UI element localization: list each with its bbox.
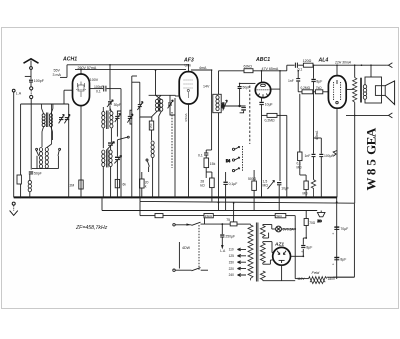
svg-text:3 mA: 3 mA [53,73,62,77]
svg-text:1nF: 1nF [288,79,294,83]
oscillator coil 2 [151,141,154,158]
wire bus end down x336.7 [336,197,338,279]
wire W2 drop [149,70,176,95]
svg-text:kΩ: kΩ [200,184,205,188]
svg-text:D4: D4 [226,159,230,163]
wire earth vertical [13,92,15,197]
svg-text:50pF: 50pF [243,86,251,90]
wire x117.4 lower [116,140,118,157]
output transformer winding [363,85,366,100]
svg-text:10µF: 10µF [265,102,273,106]
rail to speaker [313,64,387,66]
svg-text:ABC1: ABC1 [255,57,270,63]
svg-text:1MΩ: 1MΩ [221,103,225,109]
wire AZ1 bottom heater [263,265,295,281]
resistor 5k PSU [275,214,295,219]
field coil Feld [297,270,354,283]
svg-text:L.A: L.A [16,92,22,96]
wire to osc coil 2 [151,130,153,141]
capacitor 0,1 coupling [295,63,302,72]
svg-text:4DW: 4DW [182,246,191,250]
svg-text:A: A [364,127,379,137]
ground symbol [10,211,18,216]
svg-text:+: + [332,262,334,266]
svg-text:AL4: AL4 [318,58,329,64]
oscillator padder coil [28,180,31,191]
svg-text:ZF=458,7kHz: ZF=458,7kHz [75,225,108,231]
grid leak combo [240,108,246,113]
tube ACH1 [73,74,90,106]
speaker housing [365,77,382,103]
svg-text:AZ1: AZ1 [274,241,284,247]
resistor 6k on x117.4 [115,179,126,187]
ground dashes [13,205,15,210]
svg-text:8µF: 8µF [306,246,312,250]
AVC dashed line [249,86,251,145]
rail W2 y69.6 [75,69,186,71]
capacitor 1nF grid AL4 [288,71,300,92]
capacitor 0,1uF AF [223,172,237,211]
secondary winding HT [260,243,265,263]
svg-text:+: + [332,232,334,236]
svg-text:14V: 14V [203,85,210,89]
svg-text:100V: 100V [90,78,99,82]
wire x131.8 [132,76,137,197]
capacitor 50pF bottom left [29,171,42,175]
IF transformer 1 secondary [110,108,113,128]
capacitor 70uF [332,226,348,236]
output transformer core bar [360,78,362,103]
resistor 2M cathode [70,180,84,189]
svg-text:22H 30mA: 22H 30mA [334,60,352,64]
gang link dashed [171,112,173,168]
wire coil bottom join [32,167,58,170]
wire AF3 top [189,65,212,72]
band switch contacts D4 [226,146,243,172]
osc coil leads X [156,95,162,99]
capacitor 100pF 0,1 anode chain [90,85,122,94]
svg-text:70Ω: 70Ω [309,221,316,225]
svg-text:75: 75 [226,218,230,222]
volume pot 1M arrow [221,100,227,111]
earth terminal circle [12,89,15,92]
resistor 0,1M column [297,94,307,181]
band switch blade left [36,148,39,168]
trimmer osc2 [168,95,175,115]
mains lead lower [173,268,208,272]
switch blade osc [146,159,149,172]
capacitor 0,1 screen [198,153,208,157]
HT line A [140,201,155,215]
core T1 [46,113,48,128]
secondary winding heater [260,271,265,280]
wire AL4 right [346,88,353,90]
svg-text:0,2MΩ: 0,2MΩ [265,118,276,122]
wire ACH1 anode top [80,70,82,75]
svg-text:4,5mA: 4,5mA [315,130,319,140]
detector line y106 [221,105,245,107]
capacitor 100uF [319,154,333,198]
svg-text:30pF: 30pF [114,103,121,107]
main ground bus [14,196,337,198]
wire 62k to AL4 rail [253,65,295,71]
wires IF2 bottoms [103,167,110,198]
antenna [24,59,39,67]
wire antenna down [30,69,32,79]
potentiometer 1,5M [263,180,275,189]
resistor 150 osc [149,121,154,130]
wire speaker top [370,65,372,77]
resistor 120ohm [303,59,313,67]
resistor 70ohm smoothing [303,211,315,239]
IF transformer 1 primary [102,107,105,128]
wire dashed plug link [30,90,32,95]
wire ABC1 right [271,71,280,181]
wire ACH1 left grid [64,90,73,104]
connector circle A [30,87,33,90]
wire left drop x20.6 [20,104,22,175]
label AEG 58 W [364,127,379,190]
resistor lower 0,1M [303,181,309,197]
capacitor 250uF [220,223,235,253]
svg-text:5: 5 [364,159,379,166]
top rail W1 y64.8 [67,64,189,66]
svg-text:240: 240 [229,273,235,277]
resistor 15k [204,155,216,178]
svg-text:0,2MΩ: 0,2MΩ [301,86,311,90]
IF transformer 2 secondary [109,150,112,167]
svg-text:MΩ: MΩ [263,184,269,188]
tube AF3 [179,72,198,104]
antenna coil T1 secondary [49,104,53,127]
trimmer C-ant1 [59,114,65,123]
tap labels [229,248,235,278]
capacitor 8uF screen [311,65,322,153]
wire ACH1 cathode down [80,106,82,198]
tube AZ1 [273,247,291,265]
wire osc2 to bus [152,158,154,198]
band coil L2b [45,104,51,168]
voltage selector vertical [160,242,179,269]
IF2 detector coil box [213,94,221,112]
capacitor 1nF lower [305,154,316,180]
svg-text:100pF: 100pF [94,85,104,89]
wires IF1 bottoms [103,128,111,148]
capacitor 50pF grid [238,83,256,106]
wire antenna to coil [30,99,32,170]
capacitor 8uF first [301,238,312,254]
mains transformer core [255,223,257,282]
svg-text:E: E [364,137,379,146]
resistor zigzag speaker field [353,65,357,115]
wire to 120ohm [298,64,303,66]
switch tick [25,75,31,77]
svg-text:15kΩ: 15kΩ [205,214,213,218]
svg-text:MΩ: MΩ [297,165,303,169]
capacitor 10uF AF [277,182,289,211]
wire to bus [29,174,31,197]
core osc [158,99,160,112]
svg-text:1nF: 1nF [305,154,311,158]
core IF2 [106,149,108,167]
resistor 500 [248,170,257,211]
svg-text:150: 150 [229,260,235,264]
open arrow right mid [389,113,393,118]
capacitor 100pF antenna [29,79,45,83]
trimmer C-ant2 [64,114,70,123]
svg-text:500Ω: 500Ω [248,177,257,181]
svg-text:+: + [301,250,303,254]
svg-text:100pF: 100pF [34,79,45,83]
svg-text:AF3: AF3 [183,58,194,64]
resistor 15k PSU [204,214,275,225]
svg-text:62kΩ: 62kΩ [244,65,253,69]
wire AF3 left grid [175,95,179,97]
wire T1 bottoms [51,127,53,140]
svg-text:0,1: 0,1 [96,90,101,94]
fuse 75 [226,203,250,226]
osc coil primary [156,99,159,111]
jack trapezoid [317,211,325,223]
resistor 28k [200,172,214,201]
svg-text:50pF: 50pF [34,172,42,176]
wire speaker bottom [346,114,389,116]
junction dots on buses [20,197,338,258]
svg-text:6k: 6k [123,182,127,186]
mains transformer primary [248,224,253,280]
wire top coil rail y104 [21,103,69,105]
trimmer osc1 [132,82,152,197]
svg-text:8: 8 [364,168,379,175]
svg-text:Feld: Feld [312,270,321,275]
tube AL4 [328,76,346,109]
primary taps [237,248,246,276]
wires AZ1 left [263,242,273,265]
capacitor 8uF second [332,257,346,267]
bracket x321.3 [314,138,322,154]
core IF1 [106,111,108,130]
svg-text:125: 125 [229,254,235,258]
svg-text:G: G [364,145,379,155]
svg-text:8µF: 8µF [316,79,322,83]
svg-text:2M: 2M [70,184,75,188]
wire osc bottoms [152,111,162,197]
secondary bus y210.5 [102,197,317,210]
band coil L2a [39,148,42,169]
wire right column x68.7 [68,104,70,197]
svg-text:70µF: 70µF [340,227,348,231]
svg-text:250µF: 250µF [225,235,235,239]
wire x218.5 upper [218,71,220,95]
wire AL4 top [336,65,338,75]
wire AF3 cathode [188,104,190,197]
svg-text:L.A: L.A [220,249,226,253]
wire x110 grid [109,65,111,101]
resistor 20k [140,172,149,197]
tube ABC1 [255,82,270,97]
osc coil secondary [160,99,163,111]
svg-text:10µF: 10µF [281,187,289,191]
wire trimmer to IF1 [109,105,111,111]
svg-text:U/In: U/In [185,64,192,68]
pilot lamp wires [263,225,276,239]
svg-text:ACH1: ACH1 [62,57,77,63]
IF2 trimmer cap [107,142,114,151]
wave switch blade IF [117,136,129,140]
trimmer 30pF [107,100,121,107]
mains lead upper [173,222,230,226]
wire AL4 cathode [336,108,338,197]
wire x121 down [120,89,122,198]
speaker driver and cone [375,81,394,105]
antenna terminal circle [30,67,33,70]
trimmer IF1b [127,110,133,124]
switch link dashed [198,225,200,270]
wire x211.6 screen feed [206,70,211,153]
wire x218.5 lower [218,113,220,211]
svg-text:150: 150 [149,123,153,128]
svg-text:5kΩ: 5kΩ [276,214,282,218]
svg-text:0,1: 0,1 [198,153,203,157]
svg-text:110V: 110V [297,277,305,281]
resistor 0,2M [262,113,287,197]
svg-text:110: 110 [229,248,234,252]
svg-text:7kΩ: 7kΩ [316,86,322,90]
svg-text:120Ω: 120Ω [303,59,312,63]
svg-text:15k: 15k [210,162,216,166]
svg-text:100µF: 100µF [324,154,334,158]
wire [30,82,32,86]
wire AZ1 output [291,249,304,256]
secondary winding top [260,226,265,237]
resistor box on x20.6 [17,175,21,184]
antenna coil T1 primary [42,104,46,147]
resistor 0,2M AL4 grid [298,86,313,94]
wire below resistor [20,184,22,197]
svg-text:4,5mA: 4,5mA [184,113,188,122]
resistor 62k [244,65,254,73]
resistor box A [155,214,204,218]
wire ABC1 top [261,71,263,83]
ground connector circle [12,202,15,205]
resistor 7k [313,86,329,94]
padder cap on x117.4 [114,155,121,197]
capacitor 10uF cathode [259,98,272,198]
bracket 55V [60,65,67,78]
svg-text:W: W [364,178,379,191]
resistor zigzag on x313.5 [311,180,315,198]
open arrow top right [389,63,393,68]
band switch blade right [58,148,61,168]
IF transformer 2 primary [102,150,105,167]
pilot lamp [276,226,296,232]
junction dots rails [80,64,372,204]
svg-text:8µF: 8µF [340,258,346,262]
svg-text:MΩ: MΩ [303,192,309,196]
svg-text:0,1µF: 0,1µF [229,182,238,186]
wire x295.2 down [295,216,308,279]
connector circle B [30,95,33,98]
svg-text:220: 220 [229,267,235,271]
wire x175 [174,98,176,197]
HT line L1 [140,197,354,277]
trimmer IF1a [115,111,121,137]
wire to 62k [219,70,245,72]
svg-text:55V: 55V [54,69,61,73]
